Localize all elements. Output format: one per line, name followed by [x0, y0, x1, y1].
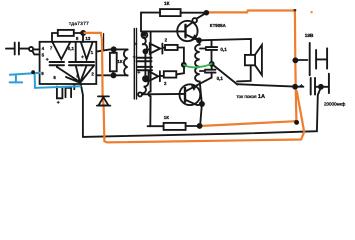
- node pin13 top: [81, 31, 85, 35]
- wire blue to pin8: [35, 73, 81, 88]
- wire bias to 1K bottom: [149, 96, 151, 126]
- wire terminal: [321, 86, 329, 88]
- transformer T1 primary: [124, 50, 128, 76]
- svg-text:8: 8: [76, 36, 79, 41]
- wire: [20, 48, 29, 50]
- transformer core: [134, 29, 136, 100]
- node out top: [197, 38, 201, 42]
- diode D2 upper: [145, 44, 162, 54]
- diode D1 on supply wire: [98, 95, 109, 97]
- wire collector Q1: [186, 22, 194, 28]
- wire to pin 4: [33, 48, 39, 50]
- node B: [210, 62, 214, 66]
- op-amp cell 1: [53, 42, 71, 59]
- terminal bar: [328, 74, 330, 93]
- transistor Q1 КТ908А: [177, 21, 197, 41]
- wire diagonal to power node: [212, 64, 238, 85]
- svg-text:0,1: 0,1: [220, 47, 227, 52]
- wire ground bus bottom black: [83, 89, 321, 137]
- svg-text:ток покоя 1А: ток покоя 1А: [237, 94, 265, 100]
- node 1K bottom right: [198, 124, 202, 128]
- node on orange power: [293, 85, 297, 89]
- choke winding: [195, 45, 202, 102]
- node green A: [182, 63, 186, 67]
- svg-text:2: 2: [165, 37, 168, 42]
- wire fan join: [57, 65, 94, 82]
- svg-text:+: +: [137, 70, 140, 76]
- wire to supply: [197, 13, 207, 19]
- battery 19В: [295, 59, 307, 61]
- wire internal mid: [75, 42, 77, 62]
- svg-text:КТ908А: КТ908А: [210, 23, 227, 28]
- wire green link node A to node B: [184, 64, 212, 68]
- svg-text:1К: 1К: [164, 1, 170, 6]
- wire through caps: [144, 51, 146, 78]
- wire speaker down: [237, 65, 251, 81]
- svg-text:1К: 1К: [117, 59, 122, 64]
- svg-text:+: +: [57, 100, 60, 106]
- wire base Q2: [142, 93, 185, 95]
- speaker: [245, 55, 255, 65]
- transformer T1 secondary upper hook: [142, 32, 148, 38]
- wire base Q1: [141, 30, 184, 32]
- svg-text:0,1: 0,1: [217, 76, 224, 81]
- wire out top to choke: [198, 40, 201, 44]
- svg-text:1К: 1К: [164, 115, 169, 120]
- svg-text:+: +: [133, 54, 136, 60]
- svg-text:2: 2: [164, 81, 167, 86]
- svg-text:6: 6: [53, 75, 56, 80]
- capacitor internal 3: [81, 62, 94, 65]
- node cap right: [319, 85, 323, 89]
- capacitor electrolytic upper: [137, 58, 152, 62]
- wire: [74, 33, 83, 42]
- wire: [141, 12, 206, 14]
- wire output to speaker: [199, 39, 251, 55]
- node battery plus: [293, 58, 297, 62]
- node sec mid: [143, 76, 148, 81]
- transistor Q2 КТ908А: [180, 84, 201, 105]
- capacitor internal 1: [50, 62, 64, 67]
- wire down: [200, 104, 202, 125]
- wire power line right: [237, 84, 303, 87]
- blue wires: [10, 73, 81, 88]
- wire: [162, 48, 184, 64]
- black over orange overlay: [97, 11, 298, 128]
- emitter Q2 with arrow: [185, 78, 211, 92]
- transformer T1 secondary upper: [142, 38, 147, 51]
- wire OUT2: [96, 74, 127, 76]
- svg-text:1: 1: [91, 50, 94, 55]
- mark corner dark: [294, 9, 313, 13]
- node collector circle: [192, 18, 197, 23]
- capacitor below box: [57, 84, 74, 98]
- node Q2 out: [200, 102, 204, 106]
- capacitor electrolytic lower: [137, 67, 152, 70]
- wire: [200, 64, 212, 78]
- resistor 1К bottom: [164, 123, 186, 130]
- node R top: [112, 47, 116, 51]
- orange wires: [84, 11, 304, 143]
- capacitor 20000мкф: [311, 78, 315, 95]
- node input (open circle): [29, 47, 33, 51]
- wire: [316, 86, 321, 88]
- svg-text:2: 2: [91, 72, 94, 77]
- node orange corner: [295, 121, 298, 124]
- wire input left: [6, 48, 14, 50]
- node sec upper end: [143, 49, 147, 53]
- op-amp U1 тда7377 box: [40, 42, 97, 84]
- svg-text:13: 13: [85, 36, 90, 41]
- svg-text:0,1: 0,1: [68, 46, 75, 51]
- wire pin13 under orange: [103, 34, 105, 50]
- diode D3 lower: [146, 71, 160, 81]
- wire 1K top left lead down: [140, 13, 142, 32]
- resistor 1К damping: [110, 53, 117, 72]
- capacitor C-in: [15, 43, 19, 55]
- svg-text:4: 4: [42, 46, 45, 51]
- resistor R3: [164, 71, 177, 77]
- svg-text:+: +: [46, 57, 49, 63]
- transformer T1 secondary lower: [138, 79, 148, 96]
- wire: [160, 67, 184, 76]
- node supply: [205, 11, 209, 15]
- capacitor 0,1 top: [206, 47, 217, 50]
- svg-text:тда7377: тда7377: [69, 21, 89, 26]
- svg-text:+: +: [300, 83, 303, 89]
- wire orange main right: [200, 11, 297, 127]
- node R bottom: [111, 73, 115, 77]
- capacitor 0,1 bottom: [205, 70, 216, 73]
- wire: [52, 33, 58, 42]
- wire pin13 down to bus: [81, 84, 83, 137]
- op-amp cell 2: [81, 42, 93, 59]
- svg-text:7: 7: [50, 46, 53, 51]
- wire to pin 5: [32, 51, 39, 54]
- ground input symbol: [10, 73, 40, 83]
- svg-text:5: 5: [42, 52, 45, 57]
- emitter Q1 with arrow: [186, 35, 198, 40]
- wire: [148, 125, 198, 127]
- svg-text:20000мкф: 20000мкф: [324, 102, 346, 107]
- capacitor internal 2: [69, 62, 82, 65]
- svg-text:+: +: [81, 54, 84, 60]
- resistor R-feedback pins 8-13: [58, 30, 74, 36]
- wire bias vertical: [150, 31, 152, 91]
- wire hop over base: [148, 92, 150, 97]
- wire: [200, 41, 212, 64]
- collector Q2: [185, 100, 202, 106]
- node blue junction: [31, 70, 35, 74]
- svg-text:+: +: [134, 41, 137, 47]
- svg-text:9: 9: [41, 71, 44, 76]
- resistor R2: [165, 45, 178, 50]
- resistor 1К top: [160, 9, 181, 16]
- svg-text:19В: 19В: [305, 33, 314, 38]
- wire OUT1: [96, 49, 127, 51]
- wire: [112, 49, 114, 75]
- wire orange supply top: [84, 33, 304, 142]
